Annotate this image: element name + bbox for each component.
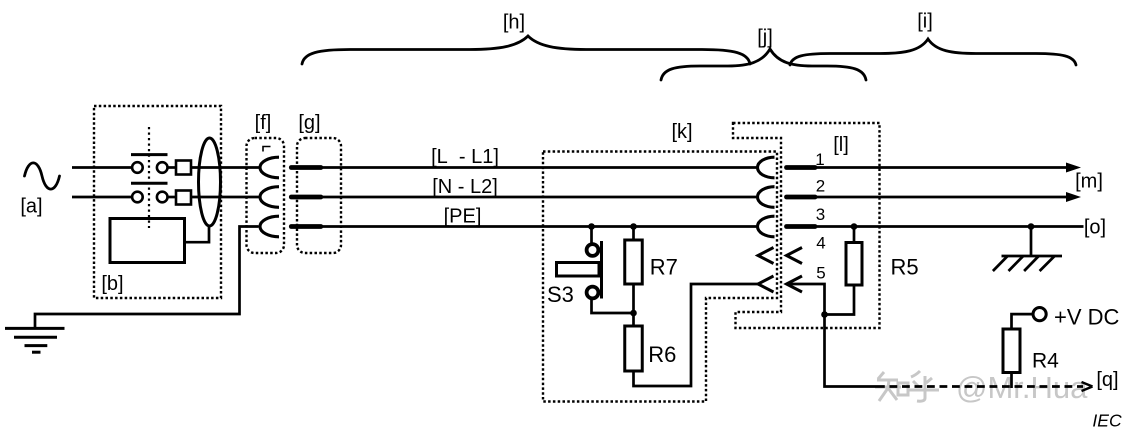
arrow line 1: [1066, 163, 1081, 173]
brace [j]: [661, 49, 866, 80]
wire N between contact and fuse: [168, 196, 177, 199]
svg-text:[k]: [k]: [671, 121, 692, 143]
plug pin 1: [787, 165, 816, 170]
svg-text:[N - L2]: [N - L2]: [432, 176, 498, 198]
svg-text:[h]: [h]: [503, 12, 525, 34]
wire N main run: [322, 196, 758, 199]
plug pin [g] line PE: [291, 224, 321, 229]
wire N from source: [72, 196, 132, 199]
svg-text:[a]: [a]: [20, 196, 42, 218]
wire R6 to pin 5: [634, 284, 760, 386]
svg-text:[b]: [b]: [101, 273, 123, 295]
socket contact [f] line PE: [260, 216, 279, 237]
svg-text:3: 3: [816, 205, 825, 224]
socket contact [f] line N: [260, 187, 279, 208]
switch contact circles (line L): [132, 162, 167, 173]
socket contact [k] line 2: [757, 187, 774, 208]
contact arrow [k] pin 5: [758, 276, 774, 292]
brace [h]: [302, 36, 750, 64]
wire S3 to node: [592, 299, 634, 314]
wire L between contact and fuse: [168, 166, 177, 169]
fuse square (line L): [176, 161, 191, 175]
switch S3 actuator: [557, 263, 600, 277]
chassis earth symbol: [993, 256, 1062, 271]
svg-text:[i]: [i]: [917, 11, 933, 33]
corner mark in [f]: [263, 147, 271, 152]
wire R5 bottom to node: [825, 285, 855, 315]
pin arrow 4: [787, 248, 803, 264]
arrow line 2: [1066, 192, 1081, 202]
arrow [q]: [1082, 382, 1093, 391]
wire line 1 output: [817, 166, 1070, 169]
plug pin [g] line N: [291, 195, 321, 200]
terminal +V DC: [1033, 308, 1046, 321]
contact arrow [k] pin 4: [758, 248, 774, 264]
current sensor ellipse: [199, 138, 221, 226]
svg-text:[f]: [f]: [255, 112, 272, 134]
AC source [a] sine: [25, 163, 60, 189]
wire L1 from source: [72, 166, 132, 169]
svg-text:[q]: [q]: [1096, 369, 1118, 391]
node S3 on PE: [588, 223, 595, 230]
svg-text:2: 2: [816, 177, 825, 196]
switch S3 lower contact: [587, 287, 599, 299]
svg-text:R6: R6: [648, 342, 676, 367]
switch S3 bridge bar: [600, 241, 603, 299]
switch bridge bar (line L): [131, 153, 168, 156]
switch S3 upper contact: [587, 244, 599, 256]
svg-text:[l]: [l]: [833, 134, 849, 156]
svg-text:[L - L1]: [L - L1]: [431, 146, 499, 168]
svg-text:S3: S3: [547, 282, 574, 307]
brace [i]: [790, 39, 1076, 65]
resistor R4: [1003, 329, 1020, 373]
svg-text:R4: R4: [1032, 350, 1059, 373]
switch contact circles (line N): [132, 192, 167, 203]
PE wire from [f] down to earth: [35, 227, 259, 329]
fuse square (line N): [176, 191, 191, 205]
wire PE to S3: [590, 227, 593, 244]
box [k]: [543, 152, 777, 402]
node pin5-R5: [821, 311, 828, 318]
wire R4 to [q] line: [1010, 373, 1013, 389]
wire line 3 output: [817, 225, 1084, 228]
wire L to connector [f]: [191, 166, 259, 169]
pin arrow 5: [787, 276, 803, 292]
svg-text:R7: R7: [650, 255, 678, 280]
wire L1 main run: [322, 166, 758, 169]
earth ground symbol: [5, 328, 65, 352]
resistor R5: [846, 243, 862, 286]
wire PE main run: [322, 225, 758, 228]
svg-text:[PE]: [PE]: [444, 206, 482, 228]
wire dashed to [q]: [877, 385, 1083, 388]
svg-text:5: 5: [816, 264, 825, 283]
svg-text:[g]: [g]: [298, 112, 320, 134]
plug pin 2: [787, 195, 816, 200]
wire N to connector [f]: [191, 196, 259, 199]
wire +V DC to R4: [1012, 314, 1034, 329]
node R7 on PE: [630, 223, 637, 230]
box [f]: [247, 138, 285, 253]
box [g]: [297, 138, 341, 253]
socket contact [k] line 1: [757, 157, 774, 178]
resistor R7: [625, 240, 643, 284]
wire relay to ellipse: [185, 227, 210, 242]
svg-text:[o]: [o]: [1084, 217, 1106, 239]
svg-text:4: 4: [816, 234, 825, 253]
wire PE to R7: [632, 227, 635, 241]
wire line 2 output: [817, 196, 1070, 199]
node R7-R6-S3: [630, 310, 637, 317]
wire to chassis earth: [1030, 227, 1033, 257]
svg-text:IEC: IEC: [1092, 411, 1122, 431]
switch bridge bar (line N): [131, 182, 168, 185]
node R5 on line 3: [851, 223, 858, 230]
wire line 3 to R5: [853, 227, 856, 243]
watermark: [875, 371, 939, 401]
node chassis earth on line 3: [1028, 223, 1035, 230]
socket contact [k] line 3: [757, 216, 774, 237]
svg-text:[m]: [m]: [1075, 171, 1103, 193]
resistor R6: [625, 326, 643, 371]
wire pin 5 down: [787, 284, 878, 387]
plug pin 3: [787, 224, 816, 229]
svg-text:[j]: [j]: [757, 27, 773, 49]
relay box: [110, 219, 185, 263]
svg-text:+V DC: +V DC: [1054, 305, 1120, 330]
wire R7 to node: [632, 284, 635, 326]
svg-text:R5: R5: [891, 255, 919, 280]
box [l]: [733, 123, 880, 328]
plug pin [g] line L: [291, 165, 321, 170]
socket contact [f] line L: [260, 157, 279, 178]
box [b]: [94, 106, 221, 298]
switch linkage (dashed): [148, 127, 150, 228]
